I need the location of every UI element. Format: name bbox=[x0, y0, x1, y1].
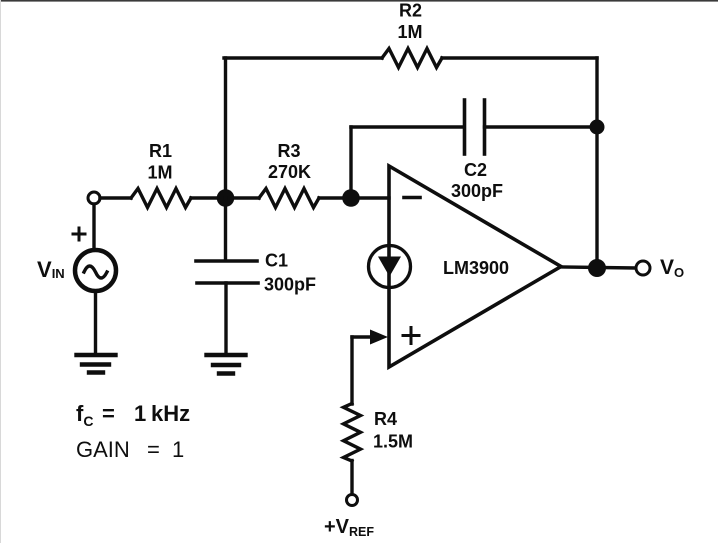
ground symbol at VIN bbox=[77, 355, 116, 373]
resistor R4 bbox=[344, 404, 361, 462]
node A junction dot bbox=[217, 189, 235, 207]
source plus polarity sign bbox=[73, 228, 85, 240]
capacitor C2 left plate bbox=[463, 100, 467, 154]
wire plus input arrow horizontal bbox=[352, 335, 372, 338]
page left border line bbox=[0, 0, 1, 543]
ground symbol at C1 bbox=[207, 355, 246, 374]
VREF terminal circle bbox=[347, 495, 358, 506]
AC source VIN circle bbox=[75, 250, 116, 291]
resistor R2 bbox=[382, 49, 442, 68]
svg-text:300pF: 300pF bbox=[264, 275, 316, 295]
svg-text:GAIN=1: GAIN=1 bbox=[76, 437, 184, 462]
wire right feedback drop to output bbox=[595, 58, 598, 268]
wire node A down to C1 bbox=[224, 198, 227, 260]
svg-text:R3: R3 bbox=[277, 141, 300, 161]
node B junction dot bbox=[342, 189, 360, 207]
svg-text:C1: C1 bbox=[265, 251, 288, 271]
op-amp plus input sign bbox=[403, 328, 419, 344]
wire input terminal down to source bbox=[92, 204, 95, 250]
wire source to ground bbox=[94, 291, 97, 353]
wire top feedback rail right segment bbox=[442, 56, 597, 59]
resistor R1 bbox=[131, 189, 191, 208]
wire node B up to C2 branch bbox=[349, 127, 352, 198]
capacitor C1 bottom plate bbox=[197, 281, 258, 285]
output terminal circle bbox=[636, 261, 650, 275]
svg-text:+VREF: +VREF bbox=[324, 516, 374, 539]
capacitor C2 right plate bbox=[483, 100, 487, 154]
wire down to R4 bbox=[350, 337, 353, 404]
capacitor C1 top plate bbox=[196, 259, 257, 263]
page top border line bbox=[0, 0, 718, 2]
wire C1 to ground bbox=[224, 283, 227, 353]
wire input terminal to R1 bbox=[100, 196, 131, 199]
wire R4 to VREF terminal bbox=[350, 461, 353, 495]
svg-text:1.5M: 1.5M bbox=[373, 432, 413, 452]
output node junction dot bbox=[588, 259, 606, 277]
resistor R3 bbox=[259, 189, 319, 208]
svg-text:1M: 1M bbox=[397, 22, 422, 42]
current source arrow bbox=[378, 257, 401, 277]
svg-text:fC=1kHz: fC=1kHz bbox=[76, 401, 190, 429]
node C2-output junction dot bbox=[590, 120, 605, 135]
current source circle inside op-amp bbox=[369, 246, 411, 288]
svg-text:300pF: 300pF bbox=[451, 181, 503, 201]
AC source sine symbol bbox=[84, 266, 107, 278]
wire op-amp output to node bbox=[561, 267, 636, 268]
svg-text:270K: 270K bbox=[268, 162, 311, 182]
svg-text:C2: C2 bbox=[464, 160, 487, 180]
wire R3 to node B and op-amp minus input bbox=[319, 196, 389, 199]
svg-text:VO: VO bbox=[660, 256, 684, 280]
input terminal circle bbox=[88, 192, 100, 204]
svg-text:LM3900: LM3900 bbox=[443, 258, 509, 278]
wire R1 to node A bbox=[191, 196, 259, 199]
op-amp minus input sign bbox=[404, 196, 420, 200]
svg-text:R2: R2 bbox=[399, 1, 422, 21]
svg-text:R4: R4 bbox=[374, 409, 397, 429]
wire top feedback rail left segment bbox=[224, 56, 382, 59]
svg-text:R1: R1 bbox=[149, 141, 172, 161]
wire node A up to feedback rail bbox=[224, 58, 227, 198]
op-amp U1 LM3900 triangle bbox=[389, 166, 561, 367]
svg-text:VIN: VIN bbox=[37, 257, 65, 282]
svg-text:1M: 1M bbox=[147, 163, 172, 183]
plus input arrowhead bbox=[370, 330, 388, 345]
wire C2 branch left segment bbox=[351, 125, 464, 128]
wire C2 branch right segment bbox=[485, 125, 598, 128]
